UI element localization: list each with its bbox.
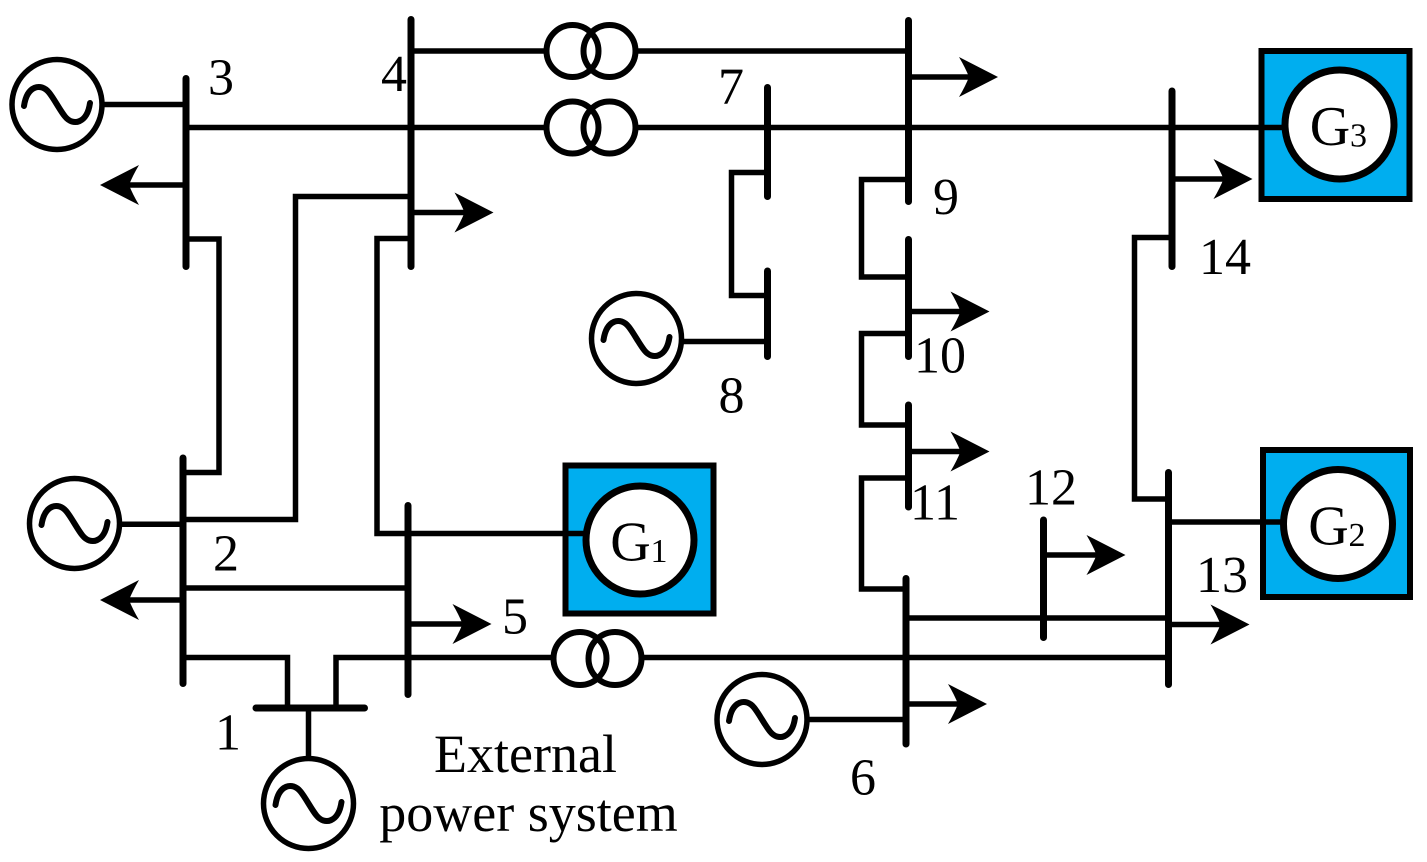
svg-text:11: 11 <box>910 475 960 532</box>
bus 11 <box>905 405 912 507</box>
svg-text:G: G <box>610 512 650 574</box>
load arrow bus 12 <box>1044 535 1126 575</box>
generator at bus 6 <box>717 675 807 765</box>
svg-text:power system: power system <box>379 783 677 843</box>
bus 2 <box>180 458 187 684</box>
generator at bus 3 <box>12 60 102 150</box>
bus 13 <box>1165 473 1172 685</box>
svg-text:2: 2 <box>1349 517 1366 554</box>
wire line 4-5-G1 <box>377 239 586 534</box>
wire line 2-3 <box>183 239 219 473</box>
wire bus 1 to external generator <box>306 708 312 759</box>
wire line 1-2 <box>183 658 288 709</box>
svg-text:1: 1 <box>215 705 241 762</box>
svg-text:G: G <box>1308 496 1348 558</box>
svg-text:10: 10 <box>914 328 966 385</box>
svg-text:1: 1 <box>651 533 668 570</box>
wire generator to bus 8 <box>681 339 768 345</box>
wire line 2-4 <box>183 197 411 520</box>
load arrow bus 11 <box>909 432 990 472</box>
svg-text:6: 6 <box>850 750 876 807</box>
svg-text:4: 4 <box>381 46 407 103</box>
wire generator to bus 2 <box>118 522 183 528</box>
bus 1 <box>256 705 365 712</box>
svg-text:14: 14 <box>1199 229 1251 286</box>
wire generator to bus 6 <box>806 717 906 723</box>
generator at bus 8 <box>592 294 682 384</box>
transformer 4-9 <box>547 25 636 77</box>
bus 3 <box>183 79 190 267</box>
load arrow bus 4 <box>411 193 494 233</box>
svg-text:9: 9 <box>933 169 959 226</box>
load arrow bus 5 <box>408 604 492 644</box>
wire generator to bus 3 <box>101 102 186 108</box>
wire line 2-5 <box>183 585 408 591</box>
load arrow bus 13 <box>1169 605 1250 645</box>
wire bus 13 to G2 <box>1169 519 1285 525</box>
generator at bus 2 <box>30 479 120 569</box>
generator unit G1 <box>564 466 714 614</box>
generator unit G2 <box>1260 450 1410 597</box>
bus 4 <box>408 20 415 267</box>
bus 10 <box>905 240 912 357</box>
svg-text:8: 8 <box>719 368 745 425</box>
wire line 4 to transformer top <box>411 48 545 54</box>
svg-text:5: 5 <box>502 589 528 646</box>
bus 8 <box>764 271 771 357</box>
wire line 5-6-13 through transformer <box>643 655 1169 661</box>
wire line 3-4 <box>186 125 545 131</box>
generator external power system <box>264 759 354 849</box>
svg-text:G: G <box>1310 96 1350 158</box>
load arrow bus 10 <box>909 292 990 332</box>
wire link 9-10 <box>862 180 909 278</box>
wire link 10-11 <box>862 334 909 426</box>
transformer 5-6 <box>554 632 642 685</box>
svg-text:3: 3 <box>208 50 234 107</box>
bus 9 <box>905 21 912 202</box>
load arrow bus 3 <box>100 165 186 205</box>
wire link 14-13 <box>1135 238 1173 500</box>
wire link 7-8 <box>732 173 768 296</box>
load arrow bus 2 <box>100 580 183 620</box>
svg-text:External: External <box>434 724 617 784</box>
bus 12 <box>1040 520 1047 638</box>
svg-text:12: 12 <box>1025 460 1077 517</box>
wire line 4-7-9-14-G3 <box>638 125 1284 131</box>
bus 7 <box>764 88 771 197</box>
svg-text:2: 2 <box>213 526 239 583</box>
wire link 11-6 <box>862 478 909 589</box>
wire line 1-5 <box>336 658 552 709</box>
transformer 4-7 <box>547 102 636 154</box>
svg-text:3: 3 <box>1350 118 1367 155</box>
wire transformer top to bus 9 <box>638 48 909 54</box>
load arrow bus 14 <box>1172 159 1253 199</box>
generator unit G3 <box>1259 51 1410 199</box>
bus 5 <box>405 506 412 695</box>
svg-text:7: 7 <box>718 59 744 116</box>
load arrow bus 9 <box>909 57 999 97</box>
bus 6 <box>903 579 910 745</box>
wire line 6-12-13 <box>906 615 1169 621</box>
bus 14 <box>1169 91 1176 267</box>
load arrow bus 6 <box>906 684 987 724</box>
svg-text:13: 13 <box>1196 547 1248 604</box>
